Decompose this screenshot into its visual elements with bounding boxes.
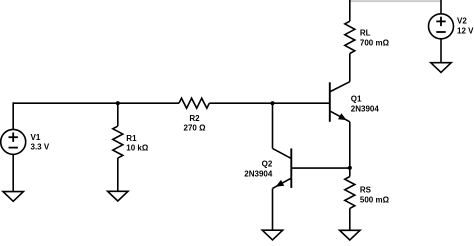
wire Q1 emitter to RS: [349, 122, 351, 177]
label RL value: [360, 29, 390, 48]
wire R1 top lead: [117, 103, 119, 126]
label R1 value: [126, 134, 149, 152]
ground below RS: [340, 230, 360, 240]
svg-text:700 mΩ: 700 mΩ: [360, 39, 390, 48]
wire V1 to R2: [13, 102, 179, 104]
svg-text:R1: R1: [126, 134, 137, 143]
svg-text:500 mΩ: 500 mΩ: [360, 195, 390, 204]
wire V2 bottom lead: [440, 39, 442, 63]
label V2 value: [457, 17, 474, 36]
node junction R1 branch: [116, 101, 120, 105]
label Q2 type: [244, 159, 273, 178]
ground below R1: [108, 191, 128, 201]
resistor R2: [179, 98, 209, 108]
svg-text:R2: R2: [189, 114, 200, 123]
wire top rail (RL top to V2 top): [350, 0, 441, 2]
svg-text:10 kΩ: 10 kΩ: [126, 143, 149, 152]
transistor Q2: [273, 148, 292, 188]
node junction Q2 branch: [270, 101, 274, 105]
voltage source V1: [1, 129, 26, 154]
svg-text:Q2: Q2: [262, 159, 273, 168]
label V1 value: [31, 133, 50, 151]
voltage source V2: [429, 14, 454, 39]
label R2 value: [184, 114, 207, 133]
svg-text:V2: V2: [457, 17, 467, 26]
resistor RL: [345, 21, 355, 53]
svg-text:2N3904: 2N3904: [244, 169, 273, 178]
node junction Q1 emitter / Q2 base / RS: [348, 166, 352, 170]
svg-text:2N3904: 2N3904: [351, 104, 380, 113]
svg-text:270 Ω: 270 Ω: [184, 123, 207, 132]
label RS value: [360, 186, 390, 205]
label Q1 type: [351, 95, 380, 114]
ground below V1: [3, 192, 23, 202]
wire R1 bottom lead: [117, 158, 119, 191]
svg-text:V1: V1: [31, 133, 41, 142]
svg-text:Q1: Q1: [351, 95, 362, 104]
ground below Q2: [262, 230, 282, 240]
wire base node to Q2 collector: [272, 103, 274, 148]
svg-text:RL: RL: [360, 29, 371, 38]
wire RS bottom lead: [349, 208, 351, 230]
wire R2 to Q1 base: [209, 102, 329, 104]
wire V1 top lead: [12, 102, 14, 129]
resistor R1: [113, 126, 123, 158]
wire RL bottom lead to Q1 collector: [349, 54, 351, 82]
wire Q2 base to RS node: [292, 167, 350, 169]
transistor Q1: [330, 82, 350, 122]
svg-text:RS: RS: [360, 186, 372, 195]
ground below V2: [431, 63, 451, 73]
svg-text:3.3 V: 3.3 V: [31, 143, 50, 152]
svg-text:12 V: 12 V: [457, 27, 474, 36]
wire Q2 emitter to ground: [272, 188, 274, 230]
wire RL top lead: [349, 0, 351, 21]
resistor RS: [345, 177, 355, 209]
wire V1 bottom lead: [12, 154, 14, 191]
wire V2 top lead: [440, 0, 442, 14]
